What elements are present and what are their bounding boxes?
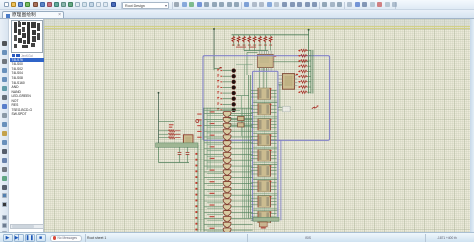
junction dots xyxy=(195,153,197,231)
wire xyxy=(240,96,242,136)
LED D7 xyxy=(217,102,235,106)
resistor R8 xyxy=(269,35,272,51)
wire xyxy=(214,67,222,69)
wire xyxy=(213,28,215,68)
wire xyxy=(158,92,160,143)
gate G2 xyxy=(204,117,252,123)
LED D3 xyxy=(217,80,235,84)
wire xyxy=(229,115,253,117)
resistor R5 xyxy=(253,35,256,51)
resistor R7 xyxy=(264,35,267,51)
LED D5 xyxy=(217,91,235,95)
label xyxy=(312,105,319,108)
gate G9 xyxy=(204,158,252,164)
wire xyxy=(159,147,190,162)
wire xyxy=(229,117,253,119)
bus xyxy=(156,143,198,147)
gate G10 xyxy=(204,164,252,170)
bus xyxy=(249,75,251,218)
bus xyxy=(197,145,199,231)
gate G4 xyxy=(204,129,252,135)
gate G15 xyxy=(204,193,252,199)
wire xyxy=(253,147,277,149)
wire xyxy=(253,116,277,118)
LED D8 xyxy=(217,108,235,112)
resistor RP9 xyxy=(298,91,311,94)
wire xyxy=(236,95,249,97)
resistor R6 xyxy=(259,35,262,51)
gate G7 xyxy=(204,146,252,152)
capacitor C1 xyxy=(178,147,182,162)
gate G14 xyxy=(204,187,252,193)
chip U13 xyxy=(238,116,244,120)
wire xyxy=(253,209,277,211)
crystal X1 xyxy=(183,135,193,147)
resistor RP1 xyxy=(298,49,311,52)
capacitor C2 xyxy=(186,147,190,162)
chip U4 xyxy=(251,88,277,100)
gate G17 xyxy=(204,204,252,210)
resistor RP2 xyxy=(298,55,311,58)
resistor R3 xyxy=(243,35,246,51)
gate G1 xyxy=(204,111,252,117)
resistor RP4 xyxy=(298,65,311,68)
wire xyxy=(204,107,253,109)
bus xyxy=(243,108,247,218)
bus xyxy=(311,50,313,94)
chip U6 xyxy=(251,119,277,131)
wire xyxy=(253,101,277,103)
resistor RP6 xyxy=(298,75,311,78)
gate G13 xyxy=(204,181,252,187)
bus xyxy=(253,217,279,221)
wire xyxy=(278,107,291,110)
gate G5 xyxy=(204,135,252,141)
label resistor values xyxy=(236,47,256,48)
resistor R9 R10 R11 xyxy=(159,130,181,139)
resistor R4 xyxy=(248,35,251,51)
chip U12 xyxy=(251,211,277,223)
wire xyxy=(229,123,253,125)
wire xyxy=(280,140,282,220)
gate G12 xyxy=(204,176,252,182)
LED D6 xyxy=(217,97,235,101)
resistor RP8 xyxy=(298,86,311,89)
LED D1 xyxy=(217,69,235,73)
wire xyxy=(253,193,277,195)
wire xyxy=(253,163,277,165)
gate G3 xyxy=(204,123,252,129)
LED D4 xyxy=(217,86,235,90)
resistor RP7 xyxy=(298,81,311,84)
gate G11 xyxy=(204,170,252,176)
chip U1 xyxy=(258,51,277,88)
chip U11 xyxy=(251,196,277,208)
wire xyxy=(278,84,283,107)
node box AREA2 xyxy=(253,71,278,221)
chip U10 xyxy=(251,180,277,192)
chip U8 xyxy=(251,150,277,162)
buzzer LS1 xyxy=(259,222,267,229)
resistor R2 xyxy=(237,35,240,46)
wire xyxy=(236,65,253,96)
wire xyxy=(274,90,276,215)
wire xyxy=(273,61,308,63)
bus xyxy=(207,108,210,170)
wire xyxy=(159,121,175,123)
LED D2 xyxy=(217,74,235,78)
resistor RP5 xyxy=(298,70,311,73)
gate labels xyxy=(197,114,201,138)
label xyxy=(196,120,199,123)
node box AREA1 xyxy=(203,56,330,141)
node label xyxy=(283,106,291,111)
bus xyxy=(203,108,205,232)
chip U9 xyxy=(251,165,277,177)
wire xyxy=(253,178,277,180)
chip U14 xyxy=(238,123,244,127)
wire xyxy=(244,50,268,52)
gate G21 xyxy=(204,228,252,234)
resistor RP3 xyxy=(298,60,311,63)
wire xyxy=(229,120,253,122)
chip U3 xyxy=(279,74,298,90)
wire xyxy=(253,132,277,134)
wire xyxy=(247,52,258,75)
chip U5 xyxy=(251,103,277,115)
gate G16 xyxy=(204,199,252,205)
gate G20 xyxy=(204,222,252,228)
chip U7 xyxy=(251,134,277,146)
wire xyxy=(213,69,215,71)
gate G18 xyxy=(204,211,252,217)
resistor R1 xyxy=(232,35,235,46)
gate G19 xyxy=(204,216,252,222)
gate G6 xyxy=(204,141,252,147)
wire xyxy=(308,29,310,94)
gate G8 xyxy=(204,152,252,158)
bus xyxy=(200,120,202,232)
wire xyxy=(204,110,240,112)
wire xyxy=(232,34,309,36)
wire xyxy=(229,126,253,128)
label xyxy=(169,124,174,128)
